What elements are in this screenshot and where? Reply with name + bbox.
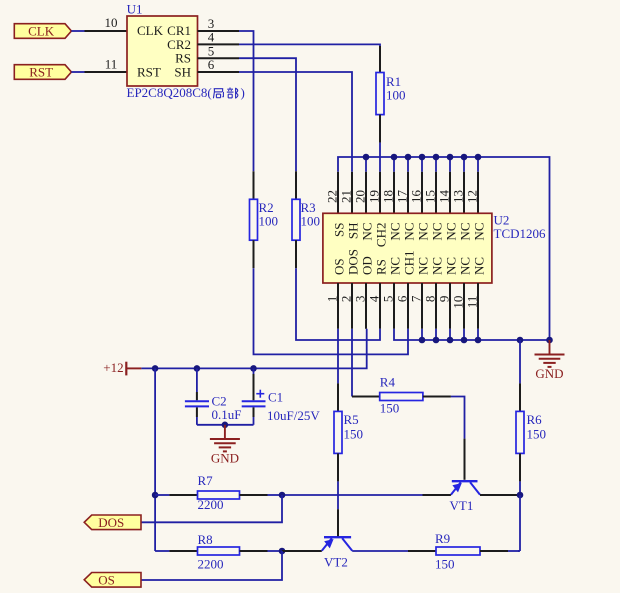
VT1 emitter pin <box>423 494 451 496</box>
svg-text:DOS: DOS <box>98 515 124 530</box>
svg-text:NC: NC <box>458 223 473 241</box>
VT2 emitter pin <box>282 550 322 552</box>
svg-text:R7: R7 <box>198 473 214 488</box>
svg-text:5: 5 <box>208 43 215 58</box>
U2 part number <box>494 226 547 241</box>
R2 labels <box>259 200 279 229</box>
svg-text:R8: R8 <box>198 532 213 547</box>
svg-text:CH1: CH1 <box>402 250 417 275</box>
svg-text:OD: OD <box>360 256 375 275</box>
svg-text:NC: NC <box>444 223 459 241</box>
wire CLK to U1 pin 10 <box>71 30 84 32</box>
svg-text:R5: R5 <box>344 412 359 427</box>
U2 bottom pin numbers <box>325 295 480 309</box>
U1 pin 4 lead <box>198 30 240 45</box>
svg-text:150: 150 <box>344 427 364 442</box>
svg-text:2200: 2200 <box>198 497 224 512</box>
svg-text:NC: NC <box>416 223 431 241</box>
U2 top pin numbers <box>325 190 480 204</box>
ground GND left <box>210 439 240 466</box>
R8 labels <box>198 532 224 572</box>
U1 pin 5 lead <box>198 43 240 58</box>
power +12 label <box>103 360 123 375</box>
svg-text:100: 100 <box>386 88 406 103</box>
svg-text:SH: SH <box>346 223 361 240</box>
CJK glyph ju (局) <box>213 89 223 99</box>
R5 labels <box>344 412 364 442</box>
svg-text:R6: R6 <box>527 412 543 427</box>
svg-text:VT1: VT1 <box>450 498 474 513</box>
wire U1 pin3 to R2 <box>239 31 254 171</box>
wire R1 to U2 pin 19 <box>379 143 381 172</box>
svg-text:6: 6 <box>395 295 410 302</box>
svg-text:): ) <box>241 85 245 100</box>
wire U2 pin5 to bottom bus <box>394 329 550 340</box>
R8 right pin <box>240 550 283 552</box>
resistor R9 <box>436 547 480 555</box>
svg-text:CH2: CH2 <box>374 223 389 248</box>
connector RST <box>14 65 71 80</box>
wire OS link <box>141 551 282 580</box>
IC U1 EP2C8Q208C8 <box>127 16 198 86</box>
resistor R4 <box>380 393 423 401</box>
U1 designator <box>127 1 143 16</box>
wire VT1 collector junction <box>517 492 524 551</box>
wire U2 pin2 (DOS) to R4 <box>351 329 353 397</box>
svg-text:NC: NC <box>402 223 417 241</box>
svg-text:16: 16 <box>409 190 424 204</box>
svg-text:18: 18 <box>381 190 396 203</box>
wire U1 pin5 to R3 <box>239 58 296 171</box>
connector CLK <box>14 24 71 39</box>
transistor VT1 <box>451 481 480 495</box>
R3 bottom pin <box>295 240 297 268</box>
junction R7 left <box>152 492 159 499</box>
wire R7 to VT1 emitter <box>282 494 423 496</box>
ground GND left stem <box>224 425 226 439</box>
resistor R1 <box>376 73 384 115</box>
capacitor C1 (polarized) <box>242 390 266 407</box>
svg-text:3: 3 <box>353 296 368 303</box>
wire R3 to U2 pin4 (RS) <box>296 268 380 340</box>
resistor R7 <box>198 491 240 499</box>
svg-text:13: 13 <box>451 190 466 203</box>
transistor VT2 <box>322 537 352 551</box>
C2 bottom lead <box>196 407 198 424</box>
ground GND right <box>535 355 565 382</box>
junction OS tap <box>279 548 286 555</box>
R6 bottom pin <box>519 453 521 495</box>
junctions on bottom bus <box>419 337 553 344</box>
VT1 collector pin <box>480 494 521 496</box>
svg-text:12: 12 <box>465 190 480 203</box>
svg-text:6: 6 <box>208 57 215 72</box>
R4 left pin <box>352 396 380 398</box>
wire R9 to VT1 collector <box>518 550 520 552</box>
R9 right pin <box>480 550 519 552</box>
IC U2 TCD1206 <box>323 213 492 283</box>
R1 top pin <box>379 46 381 73</box>
U2 bottom pin leads (1-11) <box>338 283 478 329</box>
svg-text:7: 7 <box>409 295 424 302</box>
R1 bottom pin <box>379 115 381 143</box>
svg-text:17: 17 <box>395 190 410 204</box>
svg-text:VT2: VT2 <box>324 555 348 570</box>
R7 labels <box>198 473 224 512</box>
R2 top pin <box>253 171 255 199</box>
wire +12 to C2 <box>196 368 198 400</box>
svg-text:2: 2 <box>339 296 354 303</box>
svg-text:100: 100 <box>301 214 321 229</box>
R4 right pin <box>423 396 451 398</box>
svg-text:DOS: DOS <box>346 249 361 275</box>
svg-text:22: 22 <box>325 190 340 203</box>
svg-text:11: 11 <box>105 57 118 72</box>
R7 left pin <box>155 494 197 496</box>
svg-text:NC: NC <box>430 223 445 241</box>
svg-text:10: 10 <box>451 296 466 309</box>
ground GND right stem <box>549 340 551 355</box>
svg-text:RS: RS <box>374 259 389 275</box>
wire R5 to VT2 base <box>337 481 339 509</box>
R7 right pin <box>240 494 283 496</box>
svg-text:NC: NC <box>388 223 403 241</box>
wire U1 pin4 to R1 <box>239 44 380 47</box>
svg-text:CLK: CLK <box>137 23 164 38</box>
svg-text:14: 14 <box>437 190 452 204</box>
svg-text:150: 150 <box>527 427 547 442</box>
svg-text:SS: SS <box>332 223 347 237</box>
connector DOS <box>84 515 141 530</box>
CJK glyph bu (部) <box>227 88 238 99</box>
svg-text:NC: NC <box>416 257 431 275</box>
svg-text:11: 11 <box>465 296 480 309</box>
svg-text:CLK: CLK <box>28 24 55 39</box>
C1 labels <box>267 390 320 424</box>
svg-text:R4: R4 <box>380 374 396 389</box>
svg-text:10uF/25V: 10uF/25V <box>267 408 320 423</box>
svg-text:+12: +12 <box>103 360 123 375</box>
wire U2 pin1 (OS) down <box>337 329 339 384</box>
svg-text:RST: RST <box>29 65 53 80</box>
svg-text:OS: OS <box>98 572 115 587</box>
svg-text:TCD1206: TCD1206 <box>494 226 547 241</box>
resistor R6 <box>516 411 524 453</box>
svg-text:150: 150 <box>380 401 400 416</box>
resistor R2 <box>250 199 258 240</box>
U2 top row pin names <box>332 223 487 248</box>
svg-text:19: 19 <box>367 190 382 203</box>
svg-text:1: 1 <box>325 296 340 303</box>
svg-text:RS: RS <box>175 50 191 65</box>
wire U2 NC pins 7-11 to bus <box>422 329 478 340</box>
power +12 bar <box>126 362 141 376</box>
svg-text:RST: RST <box>137 64 161 79</box>
wire C2-C1 bottoms <box>197 424 254 426</box>
U2 bottom row pin names <box>332 249 487 275</box>
svg-text:C1: C1 <box>268 390 283 405</box>
VT2 base lead <box>337 509 339 536</box>
capacitor C2 <box>185 401 209 406</box>
C2 labels <box>212 394 242 423</box>
U2 designator <box>494 213 510 228</box>
junction DOS tap <box>279 492 286 499</box>
R3 top pin <box>295 171 297 199</box>
U1 part number close paren <box>241 85 245 100</box>
R3 labels <box>301 200 321 229</box>
wire bus drops to U2 top pins <box>366 157 478 172</box>
svg-text:21: 21 <box>339 190 354 203</box>
R2 bottom pin <box>253 240 255 268</box>
R5 bottom pin <box>337 453 339 481</box>
wire bus to R6 <box>519 340 521 383</box>
U1 pin 10 lead <box>85 15 128 31</box>
svg-text:NC: NC <box>472 257 487 275</box>
U2 top pin leads (22-12) <box>338 172 478 214</box>
wire DOS link <box>141 495 282 522</box>
svg-text:2200: 2200 <box>198 557 224 572</box>
junction cap bottoms <box>222 422 229 429</box>
R1 labels <box>386 74 406 103</box>
wire +12 down to R7/R8 <box>154 368 156 551</box>
wire RST to U1 pin 11 <box>71 71 84 73</box>
R4 labels <box>380 374 400 415</box>
svg-text:U1: U1 <box>127 1 143 16</box>
svg-text:R9: R9 <box>435 531 450 546</box>
R9 left pin <box>408 550 436 552</box>
U1 pin 6 lead <box>198 57 240 72</box>
U1 pin 3 lead <box>198 16 240 31</box>
svg-text:20: 20 <box>353 190 368 203</box>
wire R2 to U2 pin6 (CH1) <box>254 268 409 354</box>
R8 left pin <box>155 550 197 552</box>
svg-text:4: 4 <box>367 295 382 302</box>
resistor R5 <box>334 411 342 453</box>
svg-text:NC: NC <box>430 257 445 275</box>
VT1 base lead <box>464 439 466 480</box>
svg-text:NC: NC <box>472 223 487 241</box>
svg-text:NC: NC <box>360 223 375 241</box>
svg-text:NC: NC <box>444 257 459 275</box>
R9 labels <box>435 531 455 572</box>
svg-text:9: 9 <box>437 296 452 303</box>
svg-text:8: 8 <box>423 296 438 303</box>
U1 part number text <box>127 85 212 100</box>
wire U1 pin6 to U2 pin 21 <box>239 72 352 172</box>
VT2 label <box>324 555 348 570</box>
VT1 label <box>450 498 474 513</box>
junctions on +12 rail <box>152 365 257 372</box>
svg-text:0.1uF: 0.1uF <box>212 407 242 422</box>
U1 pin 11 lead <box>85 57 128 72</box>
wire top bus to GND <box>338 157 550 340</box>
R6 labels <box>527 412 547 442</box>
wire +12 to C1 <box>253 368 255 400</box>
svg-text:GND: GND <box>211 451 239 466</box>
svg-text:5: 5 <box>381 296 396 303</box>
C1 bottom lead <box>253 407 255 424</box>
svg-text:NC: NC <box>458 257 473 275</box>
wire +12 rail to U2 pin3 (OD) <box>141 329 366 369</box>
connector OS <box>84 572 141 587</box>
svg-text:NC: NC <box>388 257 403 275</box>
resistor R8 <box>198 547 240 555</box>
svg-text:4: 4 <box>208 30 215 45</box>
svg-text:EP2C8Q208C8(: EP2C8Q208C8( <box>127 85 212 100</box>
svg-text:10: 10 <box>105 15 118 30</box>
resistor R3 <box>292 199 300 240</box>
R5 top pin <box>337 383 339 411</box>
svg-text:100: 100 <box>259 214 279 229</box>
svg-text:GND: GND <box>535 366 563 381</box>
wire R4 to VT1 base <box>451 397 465 439</box>
svg-text:SH: SH <box>174 64 191 79</box>
junctions on top bus <box>363 154 482 161</box>
wire VT2 collector to R9 <box>352 550 408 552</box>
svg-text:15: 15 <box>423 190 438 203</box>
svg-text:OS: OS <box>332 258 347 275</box>
svg-text:150: 150 <box>435 557 455 572</box>
R6 top pin <box>519 383 521 411</box>
